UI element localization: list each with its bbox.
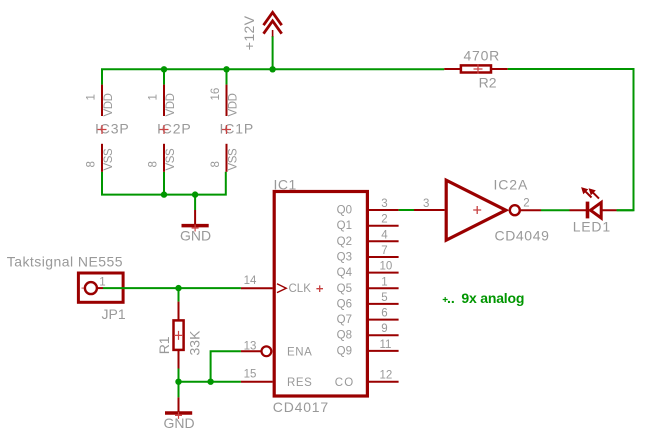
inversion bubble ENA [262,346,272,356]
node junction GND top [192,191,198,197]
svg-text:CD4017: CD4017 [273,399,329,415]
inverter IC2A triangle [446,177,549,244]
svg-text:+12V: +12V [241,15,257,50]
svg-text:IC2A: IC2A [494,177,529,193]
pin line ENA [241,350,261,352]
svg-text:Q1: Q1 [337,220,352,232]
svg-text:1: 1 [381,276,387,288]
pin VDD of IC2P [163,85,165,116]
origin cross IC2P [160,125,169,134]
origin cross GND bottom [175,412,182,419]
pin RES (15) [241,369,313,389]
svg-text:IC3P: IC3P [95,121,130,137]
svg-text:VSS: VSS [165,148,177,171]
pin VSS of IC3P [101,144,103,172]
svg-text:Q3: Q3 [337,252,352,264]
svg-text:R2: R2 [479,75,497,91]
pin Q5 (1) [337,276,399,295]
pin 3 inverter input [414,209,445,211]
pin R2 right [492,68,508,70]
svg-text:Q6: Q6 [337,298,352,310]
svg-text:4: 4 [381,229,388,241]
wire IC2P VDD stub [163,69,165,84]
pin 2 inverter output [521,209,541,211]
svg-text:10: 10 [380,261,393,273]
wire GND stem bottom [178,382,180,398]
power part IC2P [148,85,192,172]
node junction IC2P VDD [161,66,167,72]
svg-text:VDD: VDD [103,93,115,116]
origin cross R2 [474,65,483,74]
ground pin stem bottom [178,397,180,413]
emission arrow head 1 [581,187,588,194]
svg-text:1: 1 [86,94,98,100]
pin Q7 (6) [337,308,399,327]
pin line RES [241,381,273,383]
node junction R1 top [175,285,181,291]
svg-text:13: 13 [244,340,257,352]
svg-text:16: 16 [210,88,222,101]
pin Q3 (7) [337,245,399,264]
svg-text:CD4049: CD4049 [495,228,550,244]
svg-text:15: 15 [244,369,257,381]
anode triangle LED1 [591,202,602,218]
ground bar bottom [165,411,192,415]
svg-text:VSS: VSS [103,148,115,171]
pin line LED1 [570,209,617,211]
pin stub JP1 [97,287,103,289]
note origin cross [443,297,448,302]
pin circle JP1 [85,282,97,294]
triangle body IC2A [446,180,506,240]
node junction +12V [269,66,275,72]
wire LED to right rail [617,209,634,211]
wire bottom row to RES [179,381,241,383]
pin ENA (13) [241,340,313,358]
pin VSS of IC2P [163,144,165,172]
ground bar [182,224,209,228]
wire IC1P VDD stub [226,69,228,84]
origin cross GND top [192,225,199,232]
svg-text:IC1P: IC1P [220,121,255,137]
pin Q8 (9) [337,323,399,342]
origin cross IC2A [473,206,481,214]
svg-text:R1: R1 [156,336,172,354]
pin VDD of IC1P [226,85,228,116]
pin R1 top [178,302,180,320]
svg-text:IC2P: IC2P [157,121,192,137]
svg-text:GND: GND [164,415,195,431]
power part IC3P [86,85,130,172]
svg-text:470R: 470R [464,48,500,64]
svg-text:CO: CO [335,377,354,389]
origin cross IC1P [222,125,231,134]
svg-text:JP1: JP1 [102,306,126,322]
svg-text:VDD: VDD [165,93,177,116]
svg-text:14: 14 [244,275,257,287]
svg-text:1: 1 [99,277,105,289]
wire R2 to LED corner [508,69,634,210]
svg-text:Q7: Q7 [337,314,352,326]
svg-text:12: 12 [380,370,393,382]
pin CO (12) [335,370,399,389]
wire R1 bottom [178,369,180,382]
pin line CLK [241,287,273,289]
svg-text:Q2: Q2 [337,236,352,248]
svg-text:3: 3 [423,198,429,210]
svg-text:Taktsignal NE555: Taktsignal NE555 [7,254,123,270]
pin CLK (14) [241,275,323,295]
wire IC2P VSS stub [163,172,165,195]
svg-text:Q9: Q9 [337,345,352,357]
wire R1 top [178,288,180,302]
pin Q0 (3) [337,198,399,217]
svg-text:2: 2 [523,198,529,210]
svg-text:9x analog: 9x analog [461,290,524,306]
origin cross R1 [174,331,183,340]
wire JP1 to CLK [103,287,241,289]
origin cross IC1 [316,285,323,292]
wire top power bus [102,69,444,84]
svg-text:Q0: Q0 [337,205,352,217]
svg-text:7: 7 [381,245,387,257]
ground GND bottom [164,397,195,431]
IC1 CD4017 box [274,192,367,397]
wire +12V stem [272,36,274,69]
body R1 [174,320,184,350]
power part IC1P [210,85,254,172]
wire GND stem top [194,195,196,210]
svg-text:33K: 33K [187,330,203,356]
svg-text:..: .. [447,290,455,306]
svg-text:11: 11 [380,339,392,351]
wire bottom VSS bus [102,172,226,195]
svg-text:RES: RES [287,377,312,389]
cathode bar LED1 [586,202,590,219]
wire Q0 to inverter [399,209,414,211]
supply symbol +12V [264,12,282,36]
pin VSS of IC1P [226,144,228,172]
svg-text:8: 8 [148,161,160,167]
resistor R1 [156,302,203,369]
pin Q9 (11) [337,339,399,358]
svg-text:Q8: Q8 [337,330,352,342]
pin VDD of IC3P [101,85,103,116]
resistor R2 [444,48,508,91]
svg-text:CLK: CLK [289,283,312,295]
pin R2 left [444,68,460,70]
origin dash JP1 [82,287,89,289]
origin cross IC3P [98,125,107,134]
svg-text:5: 5 [381,292,387,304]
ground pin stem [194,210,196,227]
svg-text:Q4: Q4 [337,267,353,279]
note 9x analog [443,290,524,306]
svg-text:8: 8 [86,161,98,167]
svg-text:VSS: VSS [228,148,240,171]
pin Q6 (5) [337,292,399,311]
clock wedge CLK [277,284,286,293]
wire inverter to LED [541,209,570,211]
svg-text:6: 6 [381,308,387,320]
pin R1 bottom [178,351,180,369]
node junction ENA branch [207,379,213,385]
svg-text:8: 8 [210,161,222,167]
pin Q2 (4) [337,229,399,248]
node junction R1 bottom [175,379,181,385]
svg-text:Q5: Q5 [337,283,352,295]
body R2 [461,65,491,72]
pin Q1 (2) [337,214,399,233]
svg-text:ENA: ENA [287,346,312,358]
node junction IC2P VSS [161,191,167,197]
svg-text:9: 9 [381,323,387,335]
svg-text:GND: GND [180,228,211,244]
emission arrow shafts LED1 [584,190,599,198]
outline JP1 [78,273,123,302]
ground GND top [180,210,211,244]
diode LED1 [570,187,617,234]
svg-text:3: 3 [381,198,387,210]
svg-text:IC1: IC1 [274,177,297,193]
svg-text:1: 1 [148,94,160,100]
pin Q4 (10) [337,261,399,280]
emission arrow head 2 [589,188,596,195]
connector JP1 [78,273,125,322]
svg-text:VDD: VDD [228,93,240,116]
inversion bubble IC2A output [510,205,520,215]
node junction IC1P VDD [223,66,229,72]
svg-text:LED1: LED1 [573,219,611,235]
svg-text:2: 2 [381,214,387,226]
wire up to ENA [211,351,241,381]
